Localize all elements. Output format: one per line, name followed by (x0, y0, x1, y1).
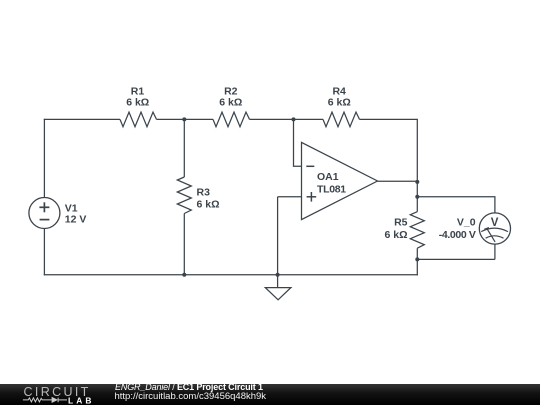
svg-text:-4.000 V: -4.000 V (439, 229, 476, 241)
wire: output node down to R5 node (416, 182, 418, 197)
junction: node A (R1/R2/R3) (182, 117, 186, 121)
svg-text:OA1: OA1 (317, 171, 339, 183)
wire: top rail left segment (44, 118, 120, 120)
wire: non-inverting input horizontal (278, 196, 302, 198)
junction: ground node (276, 273, 280, 277)
svg-text:6 kΩ: 6 kΩ (126, 97, 149, 109)
wire: left rail upper (V1 top lead) (43, 119, 45, 198)
wire: output branch down to bottom rail (416, 259, 418, 275)
svg-text:LAB: LAB (68, 395, 95, 405)
junction: R5 top node (415, 195, 419, 199)
wire: feedback vertical right (416, 119, 418, 182)
resistor R4 (323, 112, 360, 127)
wire: non-inverting input down to ground rail (277, 197, 279, 275)
wire: left rail lower (V1 bottom lead) (43, 229, 45, 276)
junction: node B (R2/R4/inverting input) (292, 117, 296, 121)
wire: R3 bottom lead (183, 214, 185, 275)
wire: voltmeter bottom lead (494, 244, 496, 259)
wire: top rail between node B and R4 (294, 118, 324, 120)
resistor R3 (177, 177, 191, 214)
junction: R5 bottom node (415, 257, 419, 261)
voltmeter V_0 (479, 213, 510, 244)
svg-text:6 kΩ: 6 kΩ (328, 97, 351, 109)
CircuitLab logo (0, 384, 110, 405)
wire: R5 bottom lead (416, 248, 418, 259)
wire: top rail between R2 and node B (250, 118, 294, 120)
svg-text:R5: R5 (394, 217, 408, 229)
svg-text:6 kΩ: 6 kΩ (384, 229, 407, 241)
url text (115, 392, 267, 402)
wire: op-amp output (378, 180, 418, 182)
wire: top rail right of R4 (360, 118, 418, 120)
voltage source V1 (29, 198, 60, 229)
resistor R1 (120, 112, 157, 127)
resistor R5 (410, 212, 424, 249)
wire: R3 top lead (183, 119, 185, 177)
svg-text:6 kΩ: 6 kΩ (197, 199, 220, 211)
svg-text:12 V: 12 V (65, 213, 87, 225)
wire: R5 top lead (416, 197, 418, 212)
op-amp OA1 TL081 (302, 142, 378, 219)
wire: inverting input drop from node B (294, 119, 302, 166)
wire: voltmeter branch bottom (417, 258, 495, 260)
wire: bottom rail (44, 274, 418, 276)
svg-text:R3: R3 (197, 187, 211, 199)
resistor R2 (213, 112, 250, 127)
title text (115, 383, 263, 392)
svg-text:TL081: TL081 (317, 184, 346, 196)
svg-text:V: V (491, 217, 499, 229)
footer bar (0, 384, 540, 405)
wire: top rail between R1 and R2 (157, 118, 214, 120)
ground symbol (265, 275, 291, 300)
svg-text:V_0: V_0 (457, 217, 476, 229)
svg-text:6 kΩ: 6 kΩ (219, 97, 242, 109)
wire: voltmeter branch top (417, 197, 495, 213)
junction: R3 bottom on ground rail (182, 273, 186, 277)
junction: output node (415, 180, 419, 184)
